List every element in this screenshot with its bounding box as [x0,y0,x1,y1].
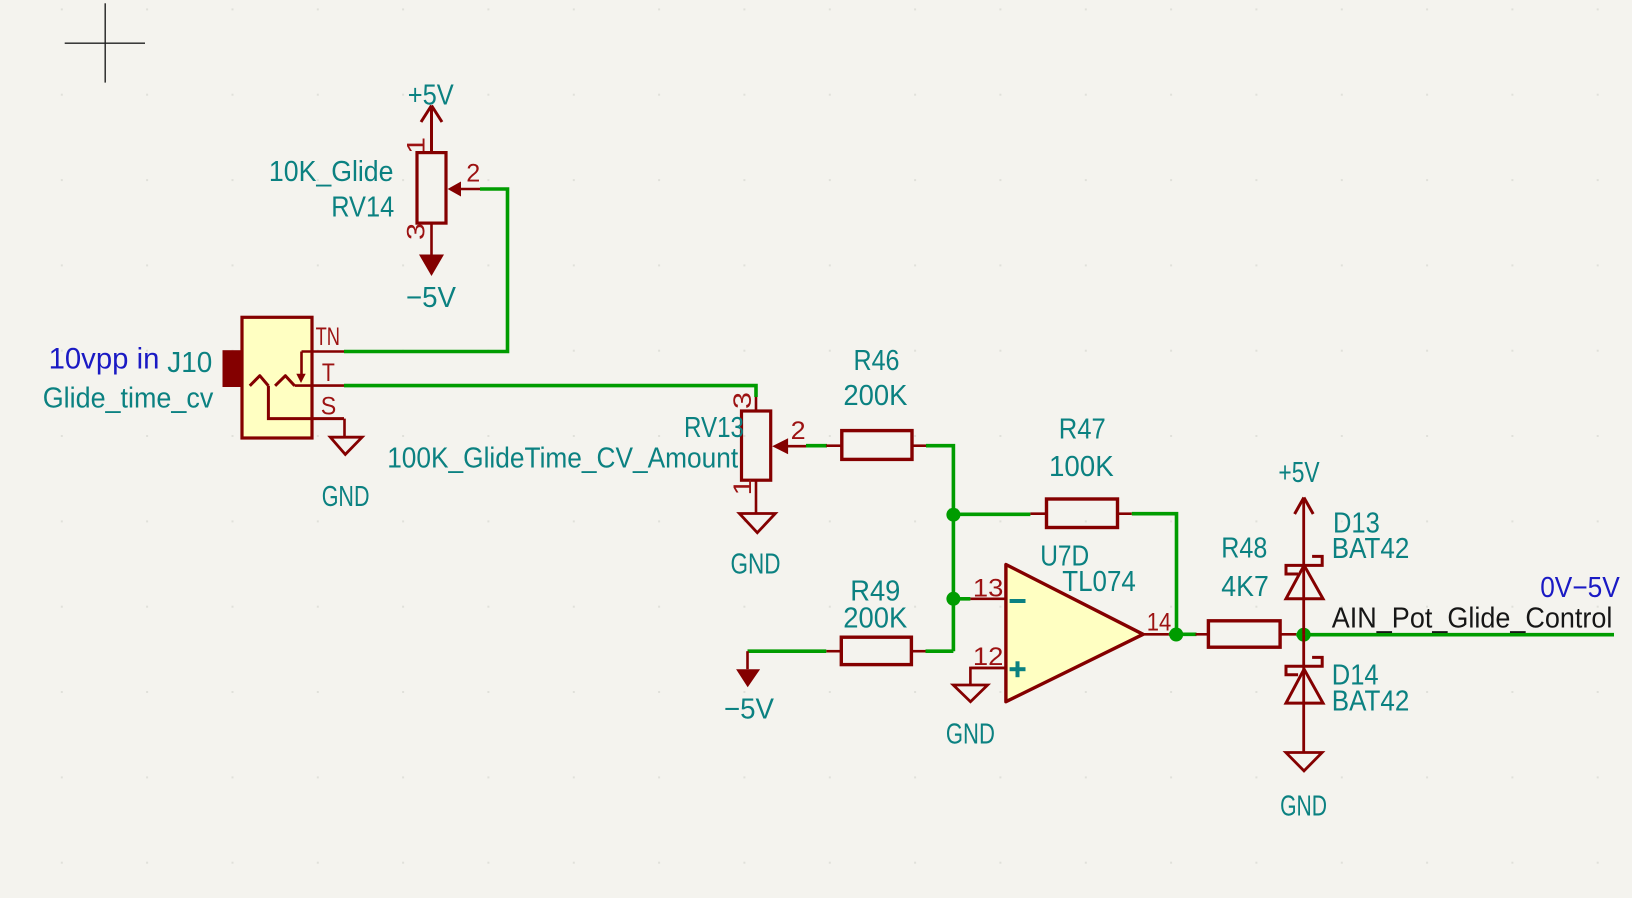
ground GND (J10) [322,419,370,513]
svg-text:4K7: 4K7 [1221,571,1269,603]
svg-text:RV14: RV14 [331,192,394,224]
resistor R48 [1196,621,1297,647]
U7D pin 12 [970,643,1006,671]
potentiometer RV14 wiper pin 2 [448,159,481,196]
junction node B [946,592,960,606]
J10 sleeve branch to S [268,386,344,419]
wire R49 to -5V [748,649,827,653]
power +5V (RV14) [408,80,455,153]
potentiometer RV14 pin 3 [403,223,432,255]
svg-text:200K: 200K [843,603,908,635]
svg-text:200K: 200K [843,380,908,412]
svg-text:Glide_time_cv: Glide_time_cv [43,383,214,415]
svg-text:2: 2 [466,159,480,187]
svg-text:−5V: −5V [724,694,775,726]
connector J10 sleeve [223,350,243,387]
wire RV13 pin2 to R46 [806,444,827,448]
diode D13 BAT42 [1286,498,1323,635]
wire op-amp output to R48 [1169,632,1197,636]
svg-text:0V−5V: 0V−5V [1540,572,1620,604]
svg-text:100K_GlideTime_CV_Amount: 100K_GlideTime_CV_Amount [387,443,738,475]
U7D pin 14 output [1143,609,1171,637]
wire node to R47 [953,512,1030,516]
resistor R46 [826,431,926,460]
svg-text:R46: R46 [854,345,900,377]
potentiometer RV13 body [742,411,771,480]
ground GND (RV13) [731,514,781,581]
svg-text:GND: GND [1280,791,1327,823]
junction output node [1169,628,1183,642]
junction node A [946,508,960,522]
ground GND (D14) [1280,753,1327,823]
svg-text:100K: 100K [1049,451,1114,483]
origin crosshair [65,3,145,82]
ground GND (U7D pin 12) [946,668,1006,751]
svg-text:−5V: −5V [406,282,457,314]
connector J10 body [242,317,312,438]
svg-text:T: T [322,359,335,387]
svg-text:GND: GND [731,549,781,581]
svg-text:BAT42: BAT42 [1332,533,1410,565]
svg-text:J10: J10 [167,347,212,379]
wire R47 to output [1132,514,1177,635]
potentiometer RV13 pin 3 [729,392,757,411]
J10 tip spring contact [250,376,269,386]
wire RV14 pin2 to J10 TN [344,189,508,352]
U7D minus input marker [1010,599,1026,603]
wire J10 T to RV13 pin3 [344,386,756,397]
svg-text:10K_Glide: 10K_Glide [269,156,394,188]
U7D pin 13 [970,574,1006,602]
svg-text:3: 3 [403,223,431,240]
potentiometer RV13 wiper pin 2 [772,417,807,454]
svg-text:10vpp in: 10vpp in [49,343,160,376]
wire node column to R49 [926,649,954,653]
svg-text:R47: R47 [1059,414,1106,446]
U7D plus input marker [1010,661,1026,677]
svg-text:13: 13 [973,574,1004,602]
resistor R49 [826,637,925,664]
wire node to op-amp pin 13 [953,597,970,601]
svg-text:1: 1 [729,479,757,496]
wire R46 to summing node column [926,446,953,652]
svg-text:AIN_Pot_Glide_Control: AIN_Pot_Glide_Control [1332,603,1613,635]
J10 pin TN [302,350,345,353]
wire R48 to output net [1296,633,1614,637]
svg-text:GND: GND [322,481,370,513]
resistor R47 [1030,499,1131,528]
power -5V (RV14) [406,255,457,315]
svg-text:3: 3 [729,392,757,409]
power +5V (D13) [1278,457,1320,514]
svg-text:TN: TN [316,323,340,351]
svg-text:+5V: +5V [1278,457,1320,489]
potentiometer RV13 pin 1 [729,479,757,514]
svg-text:R48: R48 [1221,533,1267,565]
junction diode clamp node [1297,628,1311,642]
op-amp U7D body [1006,565,1143,702]
J10 pin T [295,384,344,387]
J10 tip contact spring 2 [275,376,295,386]
svg-text:S: S [321,392,337,420]
svg-text:GND: GND [946,719,995,751]
J10 switch arm with arrow [296,352,305,384]
svg-text:2: 2 [791,417,806,445]
power -5V (R49) [724,651,775,725]
diode D14 BAT42 [1286,635,1323,753]
potentiometer RV14 body [417,153,446,224]
svg-text:BAT42: BAT42 [1332,686,1410,718]
svg-text:RV13: RV13 [684,412,744,444]
svg-text:TL074: TL074 [1062,566,1136,598]
svg-text:14: 14 [1147,609,1172,637]
